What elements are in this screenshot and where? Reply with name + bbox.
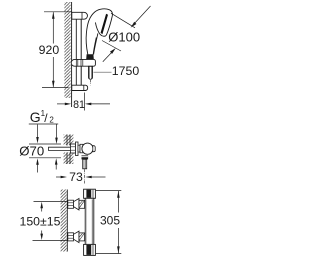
handle cone (dark) above slider xyxy=(86,54,94,59)
dimension Ø70 xyxy=(29,143,61,145)
outlet nut below body xyxy=(82,155,89,159)
slider block on rail xyxy=(71,59,95,66)
svg-text:920: 920 xyxy=(39,43,60,57)
shower rail tube xyxy=(75,19,77,85)
handle right edge xyxy=(94,33,98,54)
wall face line xyxy=(71,2,73,107)
thermostat body: top handle block xyxy=(84,189,96,198)
dimension line 305 xyxy=(117,191,119,213)
svg-text:305: 305 xyxy=(100,214,120,228)
hose centerline (dash-dot) xyxy=(89,80,91,85)
svg-text:Ø70: Ø70 xyxy=(19,144,44,159)
body tube xyxy=(85,198,94,244)
outlet centerline xyxy=(84,169,86,183)
wall hatch (front view) xyxy=(61,190,67,252)
side view: wall slab hatch xyxy=(64,135,74,146)
dimension line 920 xyxy=(52,12,54,87)
top union cone xyxy=(74,199,80,211)
G1/2 underline xyxy=(29,123,58,125)
wall face line xyxy=(66,190,68,252)
rail top bracket xyxy=(72,12,88,19)
dimension 150±15 extension lines xyxy=(34,200,68,202)
outlet tube xyxy=(83,159,87,169)
thermostat body end-on circle xyxy=(82,143,93,154)
svg-text:1750: 1750 xyxy=(112,64,140,78)
top union (front view): nut xyxy=(68,200,74,208)
svg-text:Ø100: Ø100 xyxy=(108,30,140,45)
hand shower head and handle xyxy=(86,9,112,55)
escutcheon (side view) xyxy=(76,142,79,156)
svg-text:2: 2 xyxy=(49,115,54,124)
bottom union cone xyxy=(74,231,80,243)
spray face dark sliver xyxy=(101,14,108,35)
dimension 81 xyxy=(84,93,86,111)
dimension 73 xyxy=(56,176,63,178)
union nut (side view) xyxy=(71,144,76,153)
dimension 305 extension lines xyxy=(96,190,122,192)
G1/2 leader arrow xyxy=(56,124,58,139)
bottom handle block xyxy=(84,244,96,255)
rail bottom bracket xyxy=(72,85,88,90)
outer (back) contour: handle bottom up over the head top xyxy=(86,9,109,55)
svg-text:81: 81 xyxy=(73,99,85,111)
supply pipe stub xyxy=(49,146,71,148)
dimension 920 bottom extension line xyxy=(42,87,69,89)
head right end cap xyxy=(110,10,113,16)
wall hatch (top figure) xyxy=(64,2,70,98)
bottom union (front view): nut xyxy=(68,233,74,241)
svg-text:73: 73 xyxy=(69,170,83,184)
bottom union check valve xyxy=(79,233,85,241)
neck and cap xyxy=(78,145,80,152)
top union check valve xyxy=(79,200,85,208)
handle inner detail line xyxy=(93,38,96,55)
svg-text:150±15: 150±15 xyxy=(20,214,61,228)
hose connector below slider xyxy=(89,66,93,79)
leader line 1750 xyxy=(94,71,112,73)
Ø100 lower arrow xyxy=(103,51,113,62)
dimension 920 top extension line xyxy=(44,11,72,13)
Ø100 upper arrow xyxy=(133,6,151,25)
knob stub xyxy=(93,146,95,152)
wall slab lines xyxy=(66,135,68,146)
head rim edge (front) xyxy=(106,16,112,36)
svg-text:G: G xyxy=(30,109,41,125)
dimension Ø100: extension lines xyxy=(111,13,135,28)
head bottom cap + throat curve xyxy=(95,22,106,36)
dimension line 150±15 xyxy=(41,207,43,212)
